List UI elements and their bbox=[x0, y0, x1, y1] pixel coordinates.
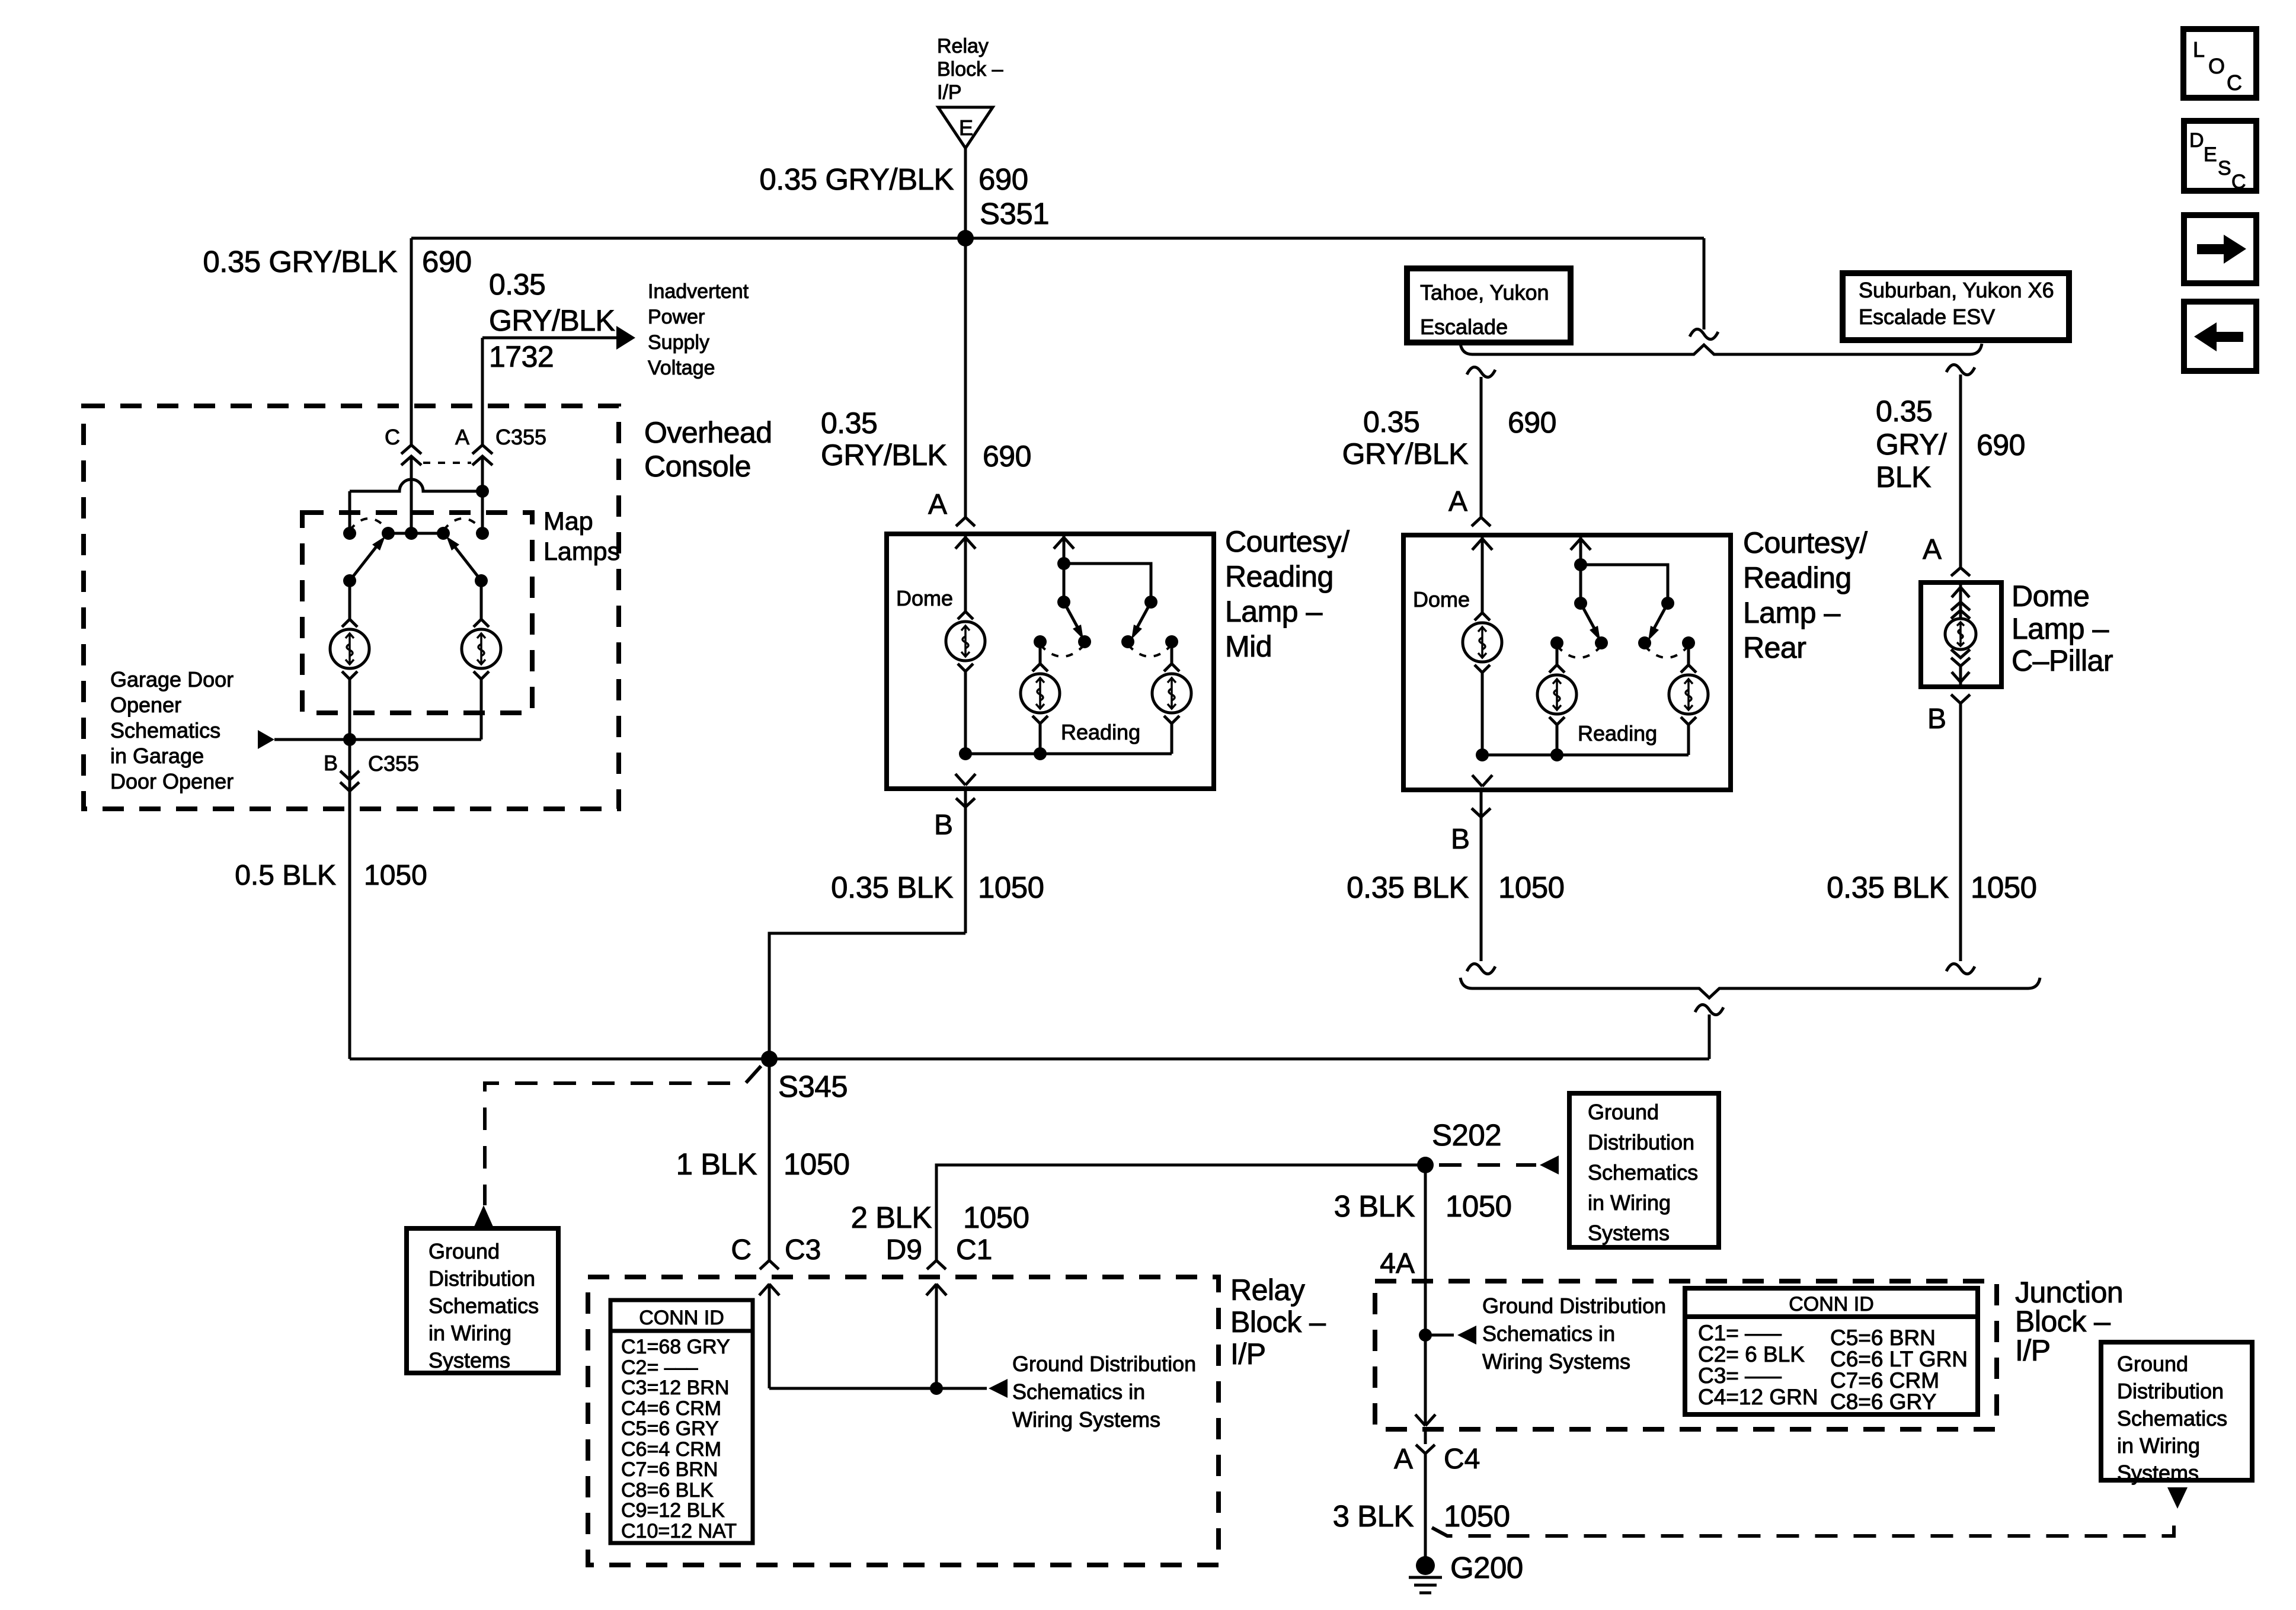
node bus left bbox=[1476, 748, 1489, 761]
wire dome branch bbox=[964, 534, 967, 612]
wire 1732 branch bbox=[482, 338, 616, 446]
wire label 3 BLK 1050 bbox=[1334, 1189, 1512, 1223]
break squiggle right branch top bbox=[1946, 364, 1975, 375]
svg-text:Voltage: Voltage bbox=[648, 357, 715, 379]
wire internal ground bus (rear) bbox=[1482, 754, 1689, 757]
svg-text:B: B bbox=[324, 751, 338, 775]
pin labels C C3 bbox=[731, 1234, 821, 1266]
svg-text:GRY/BLK: GRY/BLK bbox=[1342, 437, 1468, 470]
dashed reference from S202 bbox=[1439, 1163, 1536, 1167]
svg-text:Escalade: Escalade bbox=[1420, 315, 1508, 339]
wire A into console bbox=[481, 456, 484, 533]
svg-text:690: 690 bbox=[1977, 428, 2025, 462]
svg-text:Escalade ESV: Escalade ESV bbox=[1859, 305, 1995, 329]
wire label 2 BLK 1050 bbox=[851, 1201, 1029, 1234]
svg-text:690: 690 bbox=[1508, 406, 1556, 439]
wire brace to ground bus bbox=[1708, 1014, 1711, 1059]
dashed switch arc right bbox=[1128, 645, 1172, 657]
wire C into console bbox=[410, 456, 413, 533]
wire label 0.5 BLK 1050 bbox=[235, 860, 427, 891]
wire contact to reading lamp 2 bbox=[1171, 642, 1173, 664]
svg-text:0.35: 0.35 bbox=[489, 268, 545, 301]
wire label 3 BLK 1050 (lower) bbox=[1333, 1499, 1510, 1533]
node reading feed bbox=[1057, 557, 1070, 570]
svg-text:C4: C4 bbox=[1444, 1443, 1480, 1475]
svg-text:C5=6 BRN: C5=6 BRN bbox=[1830, 1326, 1936, 1350]
svg-text:Dome: Dome bbox=[896, 586, 953, 610]
connector C355 pin B (double chevron) bbox=[340, 771, 359, 791]
wire label 0.35 GRY/BLK 1732 bbox=[489, 268, 615, 373]
connector pin B (chevron) bbox=[1951, 694, 1970, 703]
bottom collection brace bbox=[1460, 978, 2040, 998]
map lamp 1 (bulb) bbox=[330, 619, 369, 679]
arrow up at reading feed top bbox=[1571, 539, 1591, 550]
arrow left box bbox=[2184, 302, 2256, 371]
node bus mid bbox=[1550, 748, 1563, 761]
svg-text:Ground: Ground bbox=[2117, 1352, 2188, 1376]
svg-text:S351: S351 bbox=[980, 197, 1049, 231]
node inside junction block bbox=[1419, 1329, 1432, 1342]
svg-text:C1: C1 bbox=[956, 1234, 992, 1266]
arrow down at junction block bottom bbox=[1415, 1414, 1435, 1426]
svg-text:C–Pillar: C–Pillar bbox=[2012, 644, 2113, 677]
dashed reference from S345 to ground distribution bbox=[485, 1066, 761, 1205]
break squiggle left branch top bbox=[1467, 367, 1495, 377]
arrow up at reading feed top bbox=[1054, 537, 1074, 549]
junction block dashed box bbox=[1375, 1281, 1997, 1429]
svg-text:Dome: Dome bbox=[2012, 580, 2089, 613]
svg-text:Schematics: Schematics bbox=[2117, 1406, 2227, 1430]
svg-text:Junction: Junction bbox=[2015, 1276, 2123, 1309]
svg-text:Inadvertent: Inadvertent bbox=[648, 280, 749, 303]
svg-text:2 BLK: 2 BLK bbox=[851, 1201, 932, 1234]
svg-text:GRY/BLK: GRY/BLK bbox=[821, 438, 946, 472]
connector pin A/C4 (double chevron) bbox=[1416, 1445, 1435, 1454]
dashed switch arc right bbox=[443, 518, 482, 530]
connector pin B (chevron) bbox=[956, 798, 975, 807]
svg-text:Lamp –: Lamp – bbox=[1225, 595, 1322, 628]
dashed switch arc left bbox=[1557, 646, 1601, 658]
dome lamp (bulb) bbox=[946, 612, 985, 671]
break squiggle bbox=[1690, 329, 1718, 339]
node on ground bus bbox=[343, 733, 356, 746]
dashed switch arc right bbox=[1645, 646, 1689, 658]
svg-text:D: D bbox=[2189, 129, 2204, 152]
reading switch feed wire bbox=[1063, 534, 1066, 602]
svg-text:Console: Console bbox=[644, 450, 751, 483]
wire S202 down to junction block bbox=[1424, 1165, 1427, 1426]
wire B down (c-pillar) bbox=[1959, 703, 1962, 961]
svg-text:Overhead: Overhead bbox=[644, 416, 772, 449]
switch pivot nodes bbox=[1057, 596, 1157, 609]
svg-text:Reading: Reading bbox=[1225, 560, 1334, 593]
svg-text:Distribution: Distribution bbox=[2117, 1379, 2224, 1403]
wire B down from console bbox=[348, 740, 351, 1059]
wire contact to reading lamp 1 bbox=[1039, 642, 1042, 664]
svg-text:S202: S202 bbox=[1432, 1118, 1501, 1152]
svg-text:Dome: Dome bbox=[1413, 587, 1470, 612]
svg-text:S: S bbox=[2218, 157, 2231, 180]
svg-text:Relay: Relay bbox=[937, 35, 989, 57]
dashed switch arc left bbox=[350, 518, 388, 530]
loc box bbox=[2183, 29, 2256, 98]
svg-text:GRY/BLK: GRY/BLK bbox=[489, 304, 615, 337]
connector pin C/C3 (chevron) bbox=[760, 1260, 779, 1269]
reading lamp 1 (bulb) bbox=[1021, 664, 1060, 724]
wire lamp 1 to ground bus bbox=[348, 679, 351, 740]
wire 2 BLK from relay pin D9 to S202 bbox=[936, 1165, 1425, 1260]
svg-text:C4=12 GRN: C4=12 GRN bbox=[1698, 1385, 1818, 1409]
svg-text:in Wiring: in Wiring bbox=[1588, 1190, 1671, 1215]
svg-text:C: C bbox=[2227, 71, 2242, 95]
svg-text:3 BLK: 3 BLK bbox=[1334, 1189, 1415, 1223]
label Ground Distribution Schematics in Wiring Systems bbox=[1482, 1294, 1666, 1374]
reading lamp 2 rear (bulb) bbox=[1669, 665, 1708, 725]
wire C3 inside relay block bbox=[768, 1283, 771, 1388]
wire ground bus bbox=[274, 738, 481, 741]
svg-text:Tahoe, Yukon: Tahoe, Yukon bbox=[1420, 280, 1549, 305]
svg-text:0.35 GRY/BLK: 0.35 GRY/BLK bbox=[203, 245, 397, 279]
svg-text:C3=12 BRN: C3=12 BRN bbox=[621, 1377, 729, 1399]
svg-text:S345: S345 bbox=[778, 1070, 848, 1103]
label Relay Block - I/P bbox=[1230, 1273, 1326, 1371]
svg-text:1050: 1050 bbox=[784, 1147, 849, 1181]
dashed reference G200 to ground distribution bbox=[1432, 1515, 2174, 1536]
svg-text:1 BLK: 1 BLK bbox=[676, 1147, 757, 1181]
svg-text:Ground: Ground bbox=[428, 1239, 500, 1263]
label Ground Distribution Schematics in Wiring Systems bbox=[1012, 1352, 1196, 1432]
svg-text:I/P: I/P bbox=[1230, 1337, 1266, 1371]
svg-text:C9=12 BLK: C9=12 BLK bbox=[621, 1499, 725, 1522]
svg-text:BLK: BLK bbox=[1876, 460, 1931, 494]
arrow up inside relay block (C3) bbox=[759, 1284, 779, 1295]
dashed switch arc left bbox=[1040, 645, 1085, 657]
dashed connector link bbox=[423, 462, 471, 464]
wire internal ground link bbox=[769, 1387, 987, 1390]
svg-text:1050: 1050 bbox=[1446, 1189, 1511, 1223]
svg-text:Block –: Block – bbox=[937, 58, 1003, 81]
pin labels A C4 bbox=[1394, 1443, 1480, 1475]
off-page arrow to inadvertent power bbox=[616, 326, 635, 350]
arrow down at box bottom bbox=[1472, 775, 1492, 786]
wire contact to reading lamp 2 bbox=[1687, 643, 1690, 665]
wire jog to S345 bbox=[769, 933, 965, 1059]
svg-text:1050: 1050 bbox=[364, 860, 427, 891]
svg-text:Supply: Supply bbox=[648, 331, 709, 354]
svg-text:I/P: I/P bbox=[2015, 1334, 2051, 1367]
wire label 0.35 GRY/BLK 690 (left) bbox=[203, 245, 471, 279]
wire to map lamp 2 bbox=[480, 581, 483, 619]
svg-text:Distribution: Distribution bbox=[1588, 1130, 1694, 1154]
svg-text:1050: 1050 bbox=[963, 1201, 1029, 1234]
wire label 0.35 GRY/BLK 690 (mid) bbox=[821, 406, 1031, 473]
wire label 0.35 GRY/BLK 690 S351 bbox=[759, 162, 1049, 231]
svg-text:C355: C355 bbox=[368, 751, 419, 776]
node bus mid bbox=[1034, 747, 1047, 760]
svg-text:Door Opener: Door Opener bbox=[110, 769, 234, 793]
wire label 0.35 BLK 1050 (rear) bbox=[1347, 870, 1564, 904]
wire to right switch bbox=[1064, 564, 1151, 602]
wire label 0.35 GRY/BLK 690 (c-pillar) bbox=[1876, 395, 2025, 494]
switch arm right (reading rear) bbox=[1648, 603, 1668, 641]
svg-text:Suburban, Yukon X6: Suburban, Yukon X6 bbox=[1859, 278, 2054, 302]
svg-text:C7=6 CRM: C7=6 CRM bbox=[1830, 1368, 1939, 1393]
svg-text:O: O bbox=[2208, 54, 2225, 78]
pin labels B C355 bbox=[324, 751, 419, 776]
wire 690 down to overhead console pin C bbox=[410, 238, 413, 446]
node on A wire bbox=[476, 485, 489, 498]
svg-text:1050: 1050 bbox=[978, 870, 1044, 904]
reading lamp 1 rear (bulb) bbox=[1537, 665, 1576, 725]
svg-text:E: E bbox=[959, 116, 973, 140]
wire internal ground bus bbox=[965, 753, 1172, 756]
svg-text:Systems: Systems bbox=[428, 1348, 510, 1372]
wire label 1 BLK 1050 bbox=[676, 1147, 850, 1181]
svg-text:3 BLK: 3 BLK bbox=[1333, 1499, 1414, 1533]
svg-text:C355: C355 bbox=[495, 425, 546, 449]
node S351 bbox=[957, 230, 974, 247]
node reading feed bbox=[1574, 558, 1587, 571]
wire right branch (c-pillar) bbox=[1959, 375, 1962, 567]
svg-text:Distribution: Distribution bbox=[428, 1266, 535, 1291]
svg-text:0.35 BLK: 0.35 BLK bbox=[1827, 870, 1949, 904]
svg-text:CONN ID: CONN ID bbox=[1789, 1293, 1874, 1315]
svg-text:Schematics in: Schematics in bbox=[1012, 1379, 1145, 1404]
ground distribution schematics box (top right) bbox=[1569, 1093, 1719, 1247]
wire reading lamp 2 to bus bbox=[1171, 724, 1173, 754]
arrow down at box bottom bbox=[955, 774, 976, 785]
map lamps dashed box bbox=[302, 513, 532, 713]
courtesy/reading lamp rear box bbox=[1403, 535, 1731, 790]
label Dome Lamp - C-Pillar bbox=[2012, 580, 2113, 677]
arrow down inside bbox=[1952, 672, 1969, 682]
svg-text:I/P: I/P bbox=[937, 81, 962, 104]
arrow right box bbox=[2184, 215, 2256, 283]
wire main ground bus bbox=[350, 1058, 1709, 1061]
svg-text:Lamp –: Lamp – bbox=[2012, 612, 2109, 645]
label Relay Block - I/P bbox=[937, 35, 1003, 104]
wire bus corner down bbox=[1703, 238, 1706, 329]
svg-text:1050: 1050 bbox=[1971, 870, 2036, 904]
svg-text:C2= –––: C2= ––– bbox=[621, 1356, 698, 1379]
dome lamp c-pillar (bulb) bbox=[1945, 619, 1976, 649]
svg-text:Schematics: Schematics bbox=[110, 718, 220, 742]
svg-text:C4=6 CRM: C4=6 CRM bbox=[621, 1397, 721, 1420]
reference arrow (left) bbox=[1540, 1156, 1559, 1174]
svg-text:0.35 BLK: 0.35 BLK bbox=[831, 870, 953, 904]
svg-text:C5=6 GRY: C5=6 GRY bbox=[621, 1417, 719, 1440]
svg-text:C1= –––: C1= ––– bbox=[1698, 1321, 1782, 1345]
node bus left bbox=[959, 747, 972, 760]
label Map Lamps bbox=[543, 507, 620, 566]
svg-text:Schematics: Schematics bbox=[428, 1294, 539, 1318]
reference arrow (up) bbox=[474, 1205, 493, 1227]
svg-text:0.35 GRY/BLK: 0.35 GRY/BLK bbox=[759, 162, 954, 196]
off-page arrow ground distribution bbox=[989, 1379, 1008, 1398]
label Inadvertent Power Supply Voltage bbox=[648, 280, 749, 379]
top distribution brace bbox=[1460, 344, 1982, 354]
arrow up at dome branch top bbox=[1472, 539, 1492, 550]
svg-text:Rear: Rear bbox=[1743, 631, 1806, 664]
svg-text:690: 690 bbox=[422, 245, 472, 279]
wire S345 down to relay block pin C3 bbox=[768, 1059, 771, 1260]
svg-text:L: L bbox=[2193, 37, 2205, 62]
wire to right switch bbox=[1581, 565, 1668, 603]
svg-text:A: A bbox=[1448, 486, 1467, 517]
pin labels D9 C1 bbox=[886, 1234, 993, 1266]
svg-text:A: A bbox=[928, 489, 947, 520]
svg-text:C2= 6 BLK: C2= 6 BLK bbox=[1698, 1342, 1805, 1366]
svg-text:C3: C3 bbox=[785, 1234, 821, 1266]
switch arm right (reading) bbox=[1131, 602, 1151, 639]
wire D9 inside relay block bbox=[935, 1283, 938, 1388]
connector pin D9/C1 (chevron) bbox=[927, 1260, 946, 1269]
wire reading lamp 2 to bus bbox=[1687, 725, 1690, 755]
break squiggle right branch bottom bbox=[1946, 964, 1975, 974]
svg-text:B: B bbox=[1927, 703, 1946, 735]
switch pivot nodes bbox=[1574, 597, 1674, 610]
switch common bus bbox=[388, 532, 443, 535]
svg-text:Block –: Block – bbox=[1230, 1305, 1326, 1339]
node S345 bbox=[761, 1051, 778, 1067]
svg-text:Map: Map bbox=[543, 507, 593, 536]
arrow up inside relay block (D9) bbox=[926, 1284, 946, 1295]
svg-text:Schematics in: Schematics in bbox=[1482, 1321, 1615, 1346]
switch arm left (reading rear) bbox=[1581, 603, 1600, 641]
svg-text:Opener: Opener bbox=[110, 693, 181, 717]
wire reading lamp 1 to bus bbox=[1039, 724, 1042, 754]
switch contact nodes bbox=[1034, 635, 1178, 648]
wire label 0.35 GRY/BLK 690 (rear) bbox=[1342, 405, 1556, 470]
svg-text:in Wiring: in Wiring bbox=[428, 1321, 511, 1345]
pin labels C A C355 bbox=[385, 425, 546, 449]
svg-text:B: B bbox=[1451, 824, 1470, 855]
wire S351 down to lamp mid pin A bbox=[964, 238, 967, 517]
connector pin A (chevron) bbox=[1472, 517, 1491, 526]
dome lamp rear (bulb) bbox=[1463, 613, 1502, 673]
svg-text:690: 690 bbox=[978, 162, 1028, 196]
svg-text:0.35: 0.35 bbox=[821, 406, 877, 440]
svg-text:Reading: Reading bbox=[1743, 561, 1851, 594]
wire link with hop over C wire bbox=[350, 479, 482, 491]
double chevron above lamp bbox=[1951, 602, 1970, 619]
svg-text:C1=68 GRY: C1=68 GRY bbox=[621, 1336, 730, 1358]
break squiggle left branch bottom bbox=[1467, 964, 1495, 974]
svg-text:Block –: Block – bbox=[2015, 1305, 2110, 1338]
label Garage Door Opener Schematics bbox=[110, 667, 234, 793]
svg-text:Garage Door: Garage Door bbox=[110, 667, 234, 692]
svg-text:1050: 1050 bbox=[1444, 1499, 1510, 1533]
svg-text:Courtesy/: Courtesy/ bbox=[1743, 526, 1868, 559]
svg-text:0.35: 0.35 bbox=[1363, 405, 1419, 438]
svg-text:Courtesy/: Courtesy/ bbox=[1225, 525, 1350, 558]
svg-text:4A: 4A bbox=[1380, 1248, 1415, 1279]
conn id table (junction block) bbox=[1685, 1288, 1978, 1414]
svg-text:C: C bbox=[385, 425, 400, 449]
svg-text:A: A bbox=[455, 425, 469, 449]
svg-text:GRY/: GRY/ bbox=[1876, 428, 1947, 461]
label Overhead Console bbox=[644, 416, 772, 483]
switch contact nodes bbox=[1550, 636, 1695, 649]
switch arm left (reading) bbox=[1064, 602, 1083, 639]
switch contact nodes bbox=[343, 527, 489, 540]
label Courtesy/Reading Lamp - Mid bbox=[1225, 525, 1350, 663]
overhead console dashed box bbox=[84, 406, 619, 809]
svg-text:1050: 1050 bbox=[1498, 870, 1564, 904]
switch arm left (map lamp 1) bbox=[343, 536, 385, 587]
node S202 bbox=[1417, 1157, 1434, 1173]
svg-text:C6=6 LT GRN: C6=6 LT GRN bbox=[1830, 1347, 1968, 1371]
svg-text:Schematics: Schematics bbox=[1588, 1160, 1698, 1185]
svg-text:0.35: 0.35 bbox=[1876, 395, 1932, 428]
reading switch feed wire (rear) bbox=[1579, 535, 1582, 603]
wire contact to reading lamp 1 bbox=[1556, 643, 1559, 665]
conn id table (relay block) bbox=[610, 1300, 753, 1543]
off-page arrow from garage door opener bbox=[258, 730, 274, 749]
vehicle box Tahoe, Yukon Escalade bbox=[1407, 268, 1571, 343]
svg-text:Reading: Reading bbox=[1061, 720, 1140, 744]
desc box bbox=[2184, 121, 2256, 193]
svg-text:B: B bbox=[934, 809, 953, 841]
reference arrow (left) bbox=[1457, 1326, 1476, 1345]
svg-text:D9: D9 bbox=[886, 1234, 922, 1266]
double chevron below lamp bbox=[1951, 649, 1970, 666]
svg-text:G200: G200 bbox=[1450, 1551, 1523, 1585]
svg-text:C8=6 BLK: C8=6 BLK bbox=[621, 1479, 714, 1502]
svg-text:Reading: Reading bbox=[1578, 721, 1657, 745]
connector pin A (chevron) bbox=[1951, 568, 1970, 576]
svg-text:C8=6 GRY: C8=6 GRY bbox=[1830, 1390, 1936, 1414]
arrow up inside bbox=[1952, 587, 1969, 597]
svg-text:CONN ID: CONN ID bbox=[639, 1307, 724, 1329]
wire B out of rear box bbox=[1480, 790, 1483, 961]
vehicle box Suburban, Yukon X6 Escalade ESV bbox=[1843, 273, 2069, 340]
wire to reference arrow bbox=[1425, 1334, 1454, 1337]
svg-text:C: C bbox=[2231, 171, 2246, 193]
wire through c-pillar box bbox=[1959, 582, 1962, 619]
svg-text:Relay: Relay bbox=[1230, 1273, 1305, 1307]
svg-text:C6=4 CRM: C6=4 CRM bbox=[621, 1438, 721, 1461]
connector pin A (chevron) bbox=[956, 517, 975, 526]
svg-text:Mid: Mid bbox=[1225, 630, 1272, 663]
wire below junction block to G200 bbox=[1424, 1431, 1427, 1444]
dome lamp c-pillar box bbox=[1921, 582, 2001, 687]
svg-text:C10=12 NAT: C10=12 NAT bbox=[621, 1520, 737, 1542]
label Junction Block - I/P bbox=[2015, 1276, 2123, 1367]
relay block E triangle bbox=[938, 107, 993, 148]
wire left branch (rear lamp) bbox=[1480, 377, 1483, 517]
svg-text:Wiring Systems: Wiring Systems bbox=[1482, 1349, 1630, 1374]
wire E to S351 bbox=[964, 148, 967, 238]
svg-text:Lamps: Lamps bbox=[543, 537, 620, 566]
reading lamp 2 (bulb) bbox=[1152, 664, 1191, 724]
wire label 0.35 BLK 1050 (mid) bbox=[831, 870, 1044, 904]
connector pin B (chevron) bbox=[1472, 808, 1491, 817]
wire reading lamp 1 to bus bbox=[1556, 725, 1559, 755]
svg-text:A: A bbox=[1394, 1443, 1413, 1475]
ground G200 bbox=[1409, 1556, 1442, 1593]
map lamp 2 (bulb) bbox=[462, 619, 501, 679]
wire B out of box bbox=[964, 789, 967, 933]
svg-text:C: C bbox=[731, 1234, 752, 1266]
svg-text:Wiring Systems: Wiring Systems bbox=[1012, 1407, 1160, 1432]
courtesy/reading lamp mid box bbox=[887, 534, 1214, 789]
ground distribution schematics box (bottom right) bbox=[2101, 1342, 2252, 1485]
svg-text:Power: Power bbox=[648, 306, 705, 328]
arrow up at dome branch top bbox=[955, 537, 976, 549]
svg-text:Ground: Ground bbox=[1588, 1100, 1659, 1124]
wire top bus bbox=[411, 237, 1704, 240]
